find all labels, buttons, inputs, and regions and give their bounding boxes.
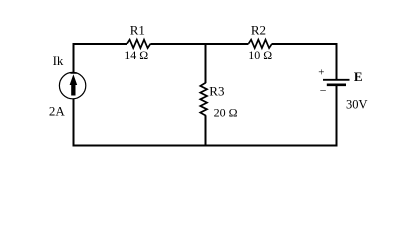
svg-text:14 Ω: 14 Ω (124, 48, 148, 62)
current source Ik circle (59, 72, 85, 98)
svg-text:30V: 30V (346, 98, 368, 112)
current source Ik terminal tick (70, 72, 76, 74)
svg-text:−: − (320, 84, 327, 98)
wire right upper (336, 43, 338, 80)
resistor R2 (249, 40, 273, 48)
svg-text:R2: R2 (251, 23, 266, 38)
wire left lower (73, 99, 75, 147)
wire top-right segment (272, 43, 338, 45)
current source arrow (70, 74, 78, 95)
svg-text:10 Ω: 10 Ω (248, 48, 272, 62)
svg-text:+: + (318, 67, 324, 79)
svg-text:2A: 2A (49, 104, 66, 119)
wire top-left segment (73, 43, 128, 45)
svg-text:Ik: Ik (53, 53, 64, 68)
wire bottom (73, 145, 338, 147)
wire middle lower (205, 115, 207, 146)
battery E negative plate (327, 84, 346, 87)
resistor R3 (200, 83, 207, 116)
wire top-middle segment (151, 43, 249, 45)
battery E positive plate (323, 79, 350, 81)
wire left upper (73, 43, 75, 73)
svg-text:R3: R3 (209, 83, 224, 98)
svg-text:E: E (354, 69, 363, 84)
svg-text:R1: R1 (130, 23, 145, 38)
svg-text:20 Ω: 20 Ω (214, 106, 238, 120)
resistor R1 (127, 40, 151, 48)
wire right lower (336, 85, 338, 146)
wire middle upper (205, 43, 207, 83)
